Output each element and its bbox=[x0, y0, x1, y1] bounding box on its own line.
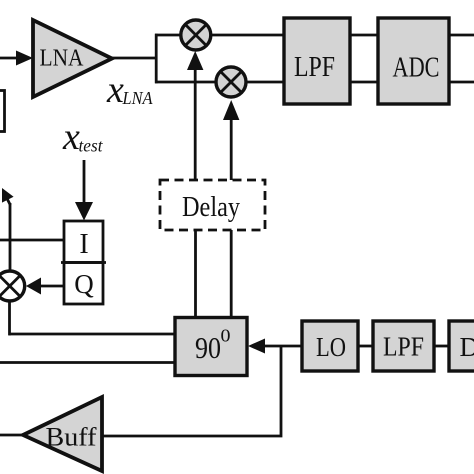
svg-text:0: 0 bbox=[221, 326, 231, 346]
svg-text:ADC: ADC bbox=[393, 53, 440, 84]
wire input to 90 block bbox=[0, 361, 175, 364]
converter ADC bbox=[378, 18, 449, 104]
wire ADC output Q bbox=[449, 81, 474, 84]
svg-text:I: I bbox=[79, 229, 88, 260]
wire splitter to mixer M1 bbox=[155, 34, 181, 37]
wire mixer M1 to LPF bbox=[211, 34, 284, 37]
arrowhead into 90 block bbox=[248, 339, 265, 354]
wire 90 to Delay (right) bbox=[230, 230, 233, 318]
svg-text:Q: Q bbox=[74, 269, 94, 299]
amplifier LNA bbox=[33, 20, 112, 97]
wire 90 to Delay (left) bbox=[194, 230, 197, 318]
svg-text:Buff: Buff bbox=[46, 423, 97, 452]
wire xtest arrow into I bbox=[83, 160, 86, 205]
wire Delay to mixer M1 bbox=[194, 68, 197, 180]
svg-text:x: x bbox=[106, 69, 124, 111]
mixer M2 bbox=[216, 67, 246, 97]
wire mixer M3 down bbox=[8, 300, 11, 335]
block Q bbox=[64, 263, 103, 305]
divider line I/Q bbox=[61, 261, 106, 264]
svg-text:LNA: LNA bbox=[122, 88, 154, 108]
mixer M1 bbox=[181, 20, 211, 50]
block 90 bbox=[175, 318, 247, 376]
block LO bbox=[302, 321, 358, 371]
arrowhead into mixer M1 bbox=[187, 51, 203, 70]
arrowhead into LNA bbox=[16, 51, 33, 66]
arrowhead into mixer M3 bbox=[26, 278, 41, 295]
wire splitter to mixer M2 bbox=[155, 81, 216, 84]
svg-text:LNA: LNA bbox=[40, 46, 85, 72]
wire D to LPF2 bbox=[434, 345, 449, 348]
wire feedback junction down bbox=[102, 346, 281, 436]
wire Buff output bbox=[0, 434, 23, 437]
label xtest bbox=[62, 116, 103, 158]
wire Q to mixer M3 bbox=[38, 285, 64, 288]
arrowhead up-left bbox=[2, 188, 14, 203]
label xLNA bbox=[106, 69, 153, 111]
amplifier Buff bbox=[23, 397, 102, 471]
svg-text:LPF: LPF bbox=[383, 332, 424, 362]
svg-text:LPF: LPF bbox=[294, 52, 335, 83]
box (cut) at left edge bbox=[0, 91, 5, 132]
svg-text:Delay: Delay bbox=[182, 192, 240, 223]
filter LPF (bottom) bbox=[373, 321, 434, 371]
wire LPF to ADC (Q) bbox=[350, 81, 378, 84]
wire ADC output I bbox=[449, 34, 474, 37]
wire splitter vertical bbox=[155, 34, 158, 84]
wire LPF to ADC (I) bbox=[350, 34, 378, 37]
wire mixer M3 to 90 block bbox=[9, 333, 175, 336]
arrowhead into mixer M2 bbox=[223, 100, 239, 120]
svg-text:D: D bbox=[460, 332, 474, 362]
wire input to LNA bbox=[0, 57, 20, 60]
filter LPF (top) bbox=[284, 18, 350, 104]
arrowhead into block I bbox=[75, 202, 93, 221]
wire LPF2 to LO bbox=[358, 345, 373, 348]
svg-text:LO: LO bbox=[316, 332, 346, 362]
wire input to I bbox=[0, 239, 64, 242]
block D (cut DAC) bbox=[449, 321, 474, 371]
mixer M3 bbox=[0, 271, 25, 301]
block I bbox=[64, 221, 103, 263]
svg-text:test: test bbox=[79, 136, 104, 156]
wire diagonal to arrow bbox=[5, 195, 10, 206]
wire Delay to mixer M2 bbox=[230, 118, 233, 180]
block Delay (dashed) bbox=[160, 180, 265, 230]
wire LO to 90 block bbox=[264, 345, 302, 348]
wire mixer M3 up bbox=[9, 203, 12, 272]
wire LNA output bbox=[112, 57, 158, 60]
wire mixer M2 to LPF bbox=[246, 81, 284, 84]
svg-text:x: x bbox=[62, 116, 80, 158]
svg-text:90: 90 bbox=[195, 330, 221, 365]
